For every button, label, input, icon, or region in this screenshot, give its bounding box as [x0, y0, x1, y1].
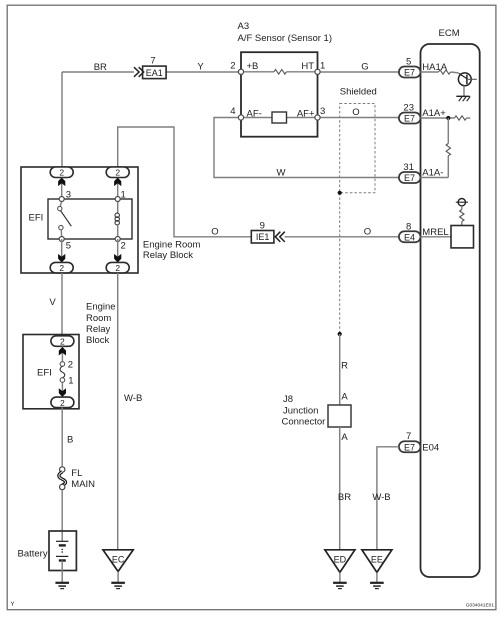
junction connector J8 box	[328, 405, 351, 427]
svg-text:1: 1	[68, 375, 73, 386]
svg-text:EC: EC	[112, 555, 125, 565]
svg-text:2: 2	[115, 168, 120, 178]
svg-text:A3: A3	[238, 21, 250, 32]
ground (EE)	[370, 583, 384, 589]
ECM internal A1A+ wire	[421, 117, 455, 119]
arrow down (fuse block)	[59, 388, 66, 397]
wire E04 to EE	[377, 447, 399, 550]
svg-text:1: 1	[121, 190, 126, 201]
junction dot drain	[338, 332, 342, 336]
ECM pin 8 E4 MREL	[399, 221, 449, 242]
svg-text:2: 2	[121, 240, 126, 251]
svg-text:W: W	[277, 167, 286, 178]
svg-text:E4: E4	[404, 232, 415, 242]
svg-text:Battery: Battery	[18, 549, 48, 560]
A/F sensor box A3	[241, 52, 318, 137]
ground (ED)	[333, 583, 347, 589]
svg-text:G: G	[361, 62, 368, 73]
svg-text:MAIN: MAIN	[71, 479, 95, 490]
svg-text:AF+: AF+	[297, 109, 315, 120]
ECM box U1	[421, 44, 480, 577]
chassis ground (ECM)	[456, 96, 470, 101]
wire O (IE1 to ECM MREL)	[285, 236, 399, 238]
relay switch contacts	[58, 202, 72, 240]
wire V (relay to EFI fuse block)	[61, 273, 63, 336]
ECM internal resistor on A1A+	[455, 116, 467, 120]
wire BR (J8 to ED)	[339, 427, 341, 550]
svg-text:V: V	[49, 297, 56, 308]
svg-text:E04: E04	[422, 443, 439, 454]
wire W-B (relay pin2 down to EC)	[117, 273, 119, 550]
sensor pin terminal circles	[238, 69, 243, 74]
wire W (AF- pin4 to ECM A1A-)	[214, 118, 399, 178]
relay coil	[115, 199, 119, 239]
ECM internal HA1A wire	[421, 71, 439, 73]
svg-text:EFI: EFI	[37, 367, 52, 378]
wire B (fuse block to FL MAIN)	[61, 408, 63, 467]
svg-text:Engine Room: Engine Room	[143, 239, 201, 250]
heater resistor inside sensor	[274, 70, 287, 75]
ground triangle ED	[325, 550, 355, 573]
svg-text:EE: EE	[371, 555, 383, 565]
svg-text:2: 2	[60, 398, 65, 408]
svg-text:3: 3	[320, 106, 325, 117]
svg-text:Y: Y	[11, 602, 15, 608]
connector 2 (bottom-right of relay block)	[106, 262, 129, 273]
svg-text:Junction: Junction	[283, 405, 318, 416]
connector EA1	[134, 55, 166, 78]
transistor Q (driver in ECM)	[458, 73, 476, 86]
svg-text:3: 3	[66, 190, 71, 201]
svg-text:E7: E7	[404, 114, 415, 124]
svg-text:E7: E7	[404, 173, 415, 183]
battery cells	[56, 541, 68, 560]
EFI fuse block outer box	[23, 335, 79, 409]
svg-text:R: R	[341, 361, 348, 372]
wire FL MAIN to battery	[61, 490, 63, 542]
wire Y (EA1 to +B)	[166, 71, 241, 73]
svg-text:1: 1	[320, 60, 325, 71]
wire pin5 to bottom connector	[61, 239, 63, 262]
ECM pin 31 E7 A1A-	[399, 162, 444, 183]
wire O (AF+ pin3 to ECM A1A+)	[318, 117, 399, 119]
arrow up (left)	[58, 178, 65, 187]
wire EE to ground	[376, 572, 378, 582]
battery box	[49, 531, 76, 571]
EFI relay block outer box	[21, 167, 138, 273]
svg-text:AF-: AF-	[247, 109, 262, 120]
svg-text:E7: E7	[404, 442, 415, 452]
wire shield drain to J8	[339, 334, 341, 405]
svg-text:7: 7	[150, 55, 155, 66]
svg-text:W-B: W-B	[124, 393, 142, 404]
wire transistor to chassis ground	[463, 86, 465, 96]
ECM pin 7 E7 E04	[399, 431, 439, 453]
connector 2 (top-left of relay block)	[50, 167, 73, 178]
wire O (EFI relay pin1 up and over to IE1)	[118, 127, 252, 237]
svg-text:5: 5	[66, 240, 71, 251]
junction dot shield corner	[338, 191, 342, 195]
svg-text:BR: BR	[94, 62, 107, 73]
junction dot A1A+	[446, 116, 450, 120]
arrow up (fuse block)	[59, 347, 66, 356]
svg-text:ECM: ECM	[439, 28, 460, 39]
ECM internal vertical wire A1A+ to A1A-	[447, 118, 449, 144]
sensor heater wire +B to HT	[241, 71, 274, 73]
svg-text:Connector: Connector	[282, 417, 326, 428]
svg-text:Shielded: Shielded	[340, 87, 377, 98]
svg-text:O: O	[364, 227, 371, 238]
wire arrow to pin3	[61, 178, 63, 200]
svg-text:Y: Y	[197, 62, 204, 73]
svg-text:J8: J8	[283, 394, 293, 405]
wire ED to ground	[339, 572, 341, 582]
ECM pin 5 E7 HA1A	[399, 56, 448, 77]
wire pin2 to bottom connector	[117, 239, 119, 262]
svg-text:9: 9	[260, 220, 265, 231]
arrow up (right)	[114, 178, 121, 187]
B+ supply circle in ECM	[456, 199, 468, 206]
wire resistor to driver box	[461, 222, 463, 226]
svg-text:2: 2	[59, 168, 64, 178]
svg-text:A: A	[341, 391, 348, 402]
svg-text:E7: E7	[404, 68, 415, 78]
sensor cell wire AF- to AF+	[241, 117, 272, 119]
svg-text:+B: +B	[247, 61, 259, 72]
svg-text:Room: Room	[86, 313, 111, 324]
svg-text:Block: Block	[86, 335, 109, 346]
ground (EC)	[111, 583, 125, 589]
svg-text:O: O	[352, 107, 359, 118]
svg-text:2: 2	[115, 263, 120, 273]
fuse EFI element	[60, 362, 65, 383]
svg-text:2: 2	[68, 360, 73, 371]
relay pin circles	[59, 197, 64, 202]
connector 2 (top-right of relay block)	[106, 167, 129, 178]
svg-text:HT: HT	[301, 61, 314, 72]
svg-text:B: B	[67, 434, 73, 445]
connector 2 (bottom of fuse block)	[51, 397, 74, 408]
relay inner box	[48, 199, 132, 239]
ECM internal resistor on HA1A	[439, 70, 451, 74]
svg-text:Relay Block: Relay Block	[143, 250, 193, 261]
ground triangle EC	[103, 550, 133, 572]
connector 2 (bottom-left of relay block)	[50, 262, 73, 273]
arrow down (right)	[114, 254, 121, 263]
svg-text:Relay: Relay	[86, 324, 111, 335]
MREL driver box in ECM	[451, 226, 474, 248]
connector 2 (top of fuse block)	[51, 336, 74, 347]
wire fuse to bottom connector	[61, 382, 63, 397]
shield drain dashed wire	[339, 193, 341, 334]
svg-text:G034041E01: G034041E01	[466, 603, 495, 609]
fusible link FL MAIN	[59, 467, 66, 490]
wire BR (EA1 to relay block, horizontal)	[62, 71, 134, 73]
svg-text:O: O	[211, 227, 218, 238]
svg-text:ED: ED	[334, 555, 347, 565]
ground (battery)	[55, 583, 69, 589]
ECM internal MREL wire	[421, 236, 452, 238]
svg-text:2: 2	[59, 263, 64, 273]
shield dashed box	[340, 104, 375, 193]
svg-text:FL: FL	[71, 468, 82, 479]
svg-text:Engine: Engine	[86, 302, 116, 313]
ECM internal resistor (vertical)	[446, 144, 450, 156]
wire B+ to resistor	[461, 206, 463, 210]
svg-text:A/F Sensor (Sensor 1): A/F Sensor (Sensor 1)	[238, 33, 333, 44]
wire EC to ground	[117, 572, 119, 583]
svg-text:IE1: IE1	[256, 232, 270, 242]
svg-text:2: 2	[60, 337, 65, 347]
svg-text:EFI: EFI	[29, 213, 44, 224]
ECM internal resistor above MREL driver	[460, 210, 464, 222]
arrow down (left)	[58, 254, 65, 263]
sensor cell element (square)	[272, 112, 287, 123]
wire BR vertical drop to EFI relay	[61, 72, 63, 167]
wire arrow to pin1	[117, 178, 119, 200]
connector IE1	[251, 220, 284, 243]
svg-text:2: 2	[230, 60, 235, 71]
ECM internal A1A- wire	[421, 177, 449, 179]
wire arrow to fuse	[61, 346, 63, 364]
svg-text:4: 4	[230, 106, 235, 117]
wire battery to ground	[61, 561, 63, 583]
svg-text:A: A	[341, 432, 348, 443]
svg-text:EA1: EA1	[146, 68, 163, 78]
svg-text:W-B: W-B	[372, 492, 390, 503]
wire G (HT pin1 to ECM HA1A)	[318, 71, 399, 73]
ground triangle EE	[362, 550, 392, 573]
ECM pin 23 E7 A1A+	[399, 102, 446, 123]
svg-text:BR: BR	[338, 492, 351, 503]
